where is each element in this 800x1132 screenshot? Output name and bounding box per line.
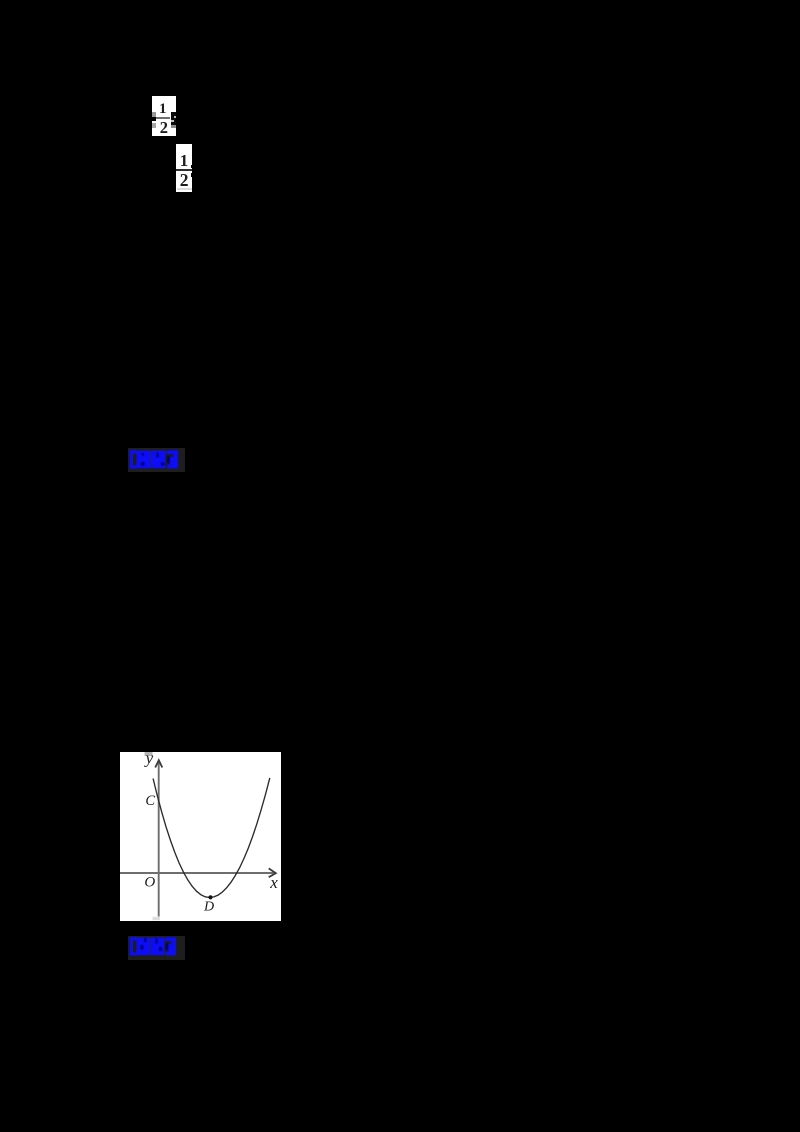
labels group (grayscale AA)	[143, 748, 278, 914]
svg-text:y: y	[143, 752, 153, 767]
svg-text:D: D	[203, 899, 214, 914]
fraction image 1 (white box with 1/2)	[152, 96, 176, 136]
svg-text:C: C	[145, 792, 155, 808]
parabola	[153, 777, 270, 897]
gray patches on left edge of box 1	[152, 112, 156, 117]
fraction bar 2	[176, 169, 192, 171]
svg-text:x: x	[269, 873, 278, 892]
blue label 1 highlight box	[128, 448, 185, 472]
gray scan blob top	[144, 752, 152, 756]
x axis arrowhead	[268, 868, 275, 877]
light underline near bottom of box 2	[177, 188, 192, 190]
svg-text:O: O	[144, 874, 155, 890]
fraction image 2 (white box with 1/2)	[176, 144, 192, 192]
graph image: white box	[120, 752, 281, 921]
black minus dash overlapping left edge	[148, 117, 156, 121]
blue label 1 text (blurred blob)	[128, 448, 185, 472]
y axis	[157, 761, 159, 916]
fraction bar 1	[156, 117, 170, 119]
blue label 2 text (blurred blob)	[128, 936, 185, 961]
blue label 2 highlight box	[128, 936, 185, 961]
gray band under glyph	[171, 125, 176, 128]
black notches right edge box 2	[191, 165, 193, 168]
y axis arrowhead	[155, 760, 162, 767]
gray scan blob bottom of y axis	[152, 916, 159, 919]
vertex dot D	[208, 895, 212, 899]
x axis	[120, 872, 274, 874]
black glyph on right edge of box 1	[171, 112, 176, 125]
